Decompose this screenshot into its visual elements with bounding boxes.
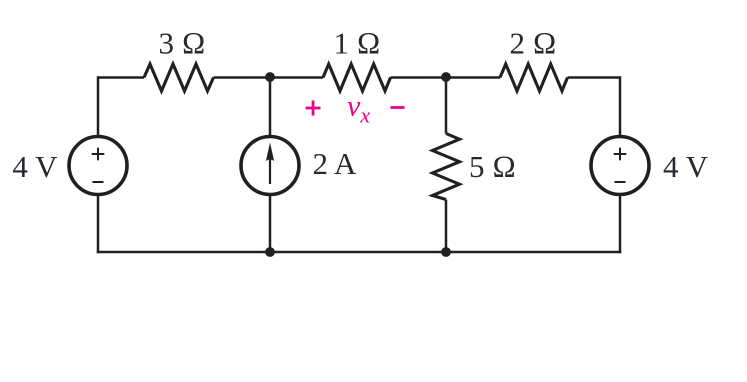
svg-text:3 Ω: 3 Ω xyxy=(158,26,205,61)
wire 5-ohm branch lower xyxy=(445,200,448,253)
wire current-source branch upper xyxy=(269,78,272,138)
wire top-middle-left horizontal xyxy=(214,76,324,79)
node dot bottom B xyxy=(441,247,451,257)
voltage source V1 circle xyxy=(69,137,127,195)
resistor R2 1-ohm zigzag xyxy=(323,64,391,91)
wire bottom horizontal xyxy=(97,251,621,254)
wire top-left horizontal xyxy=(98,76,144,79)
svg-text:2 Ω: 2 Ω xyxy=(509,26,556,61)
svg-text:5 Ω: 5 Ω xyxy=(469,149,516,184)
svg-text:2 A: 2 A xyxy=(313,146,358,181)
node dot top A xyxy=(265,72,275,82)
wire current-source branch lower xyxy=(269,195,272,253)
voltage source V2 circle xyxy=(591,137,649,195)
svg-text:4 V: 4 V xyxy=(663,149,709,184)
svg-text:4 V: 4 V xyxy=(12,149,58,184)
resistor R4 5-ohm vertical zigzag xyxy=(433,134,460,200)
I1 arrowhead xyxy=(266,143,274,162)
V1 minus sign xyxy=(93,181,104,183)
current source I1 circle xyxy=(241,137,299,195)
node dot top B xyxy=(441,72,451,82)
I1 arrow shaft xyxy=(269,150,271,184)
vx plus sign (magenta) xyxy=(306,107,321,110)
V1 plus sign xyxy=(92,153,105,155)
wire right branch lower xyxy=(619,195,622,254)
wire top-middle-right horizontal xyxy=(391,76,501,79)
resistor R1 3-ohm zigzag xyxy=(144,64,214,91)
wire 5-ohm branch upper xyxy=(445,78,448,134)
svg-text:1 Ω: 1 Ω xyxy=(333,26,380,61)
svg-text:vx: vx xyxy=(347,90,370,128)
resistor R3 2-ohm zigzag xyxy=(500,64,568,91)
node dot bottom A xyxy=(265,247,275,257)
V2 minus sign xyxy=(615,181,626,183)
wire left branch upper xyxy=(97,76,100,136)
wire left branch lower xyxy=(97,195,100,254)
wire top-right horizontal xyxy=(568,76,621,79)
V2 plus sign xyxy=(614,153,627,155)
vx minus sign (magenta) xyxy=(391,106,405,109)
wire right branch upper xyxy=(619,76,622,137)
